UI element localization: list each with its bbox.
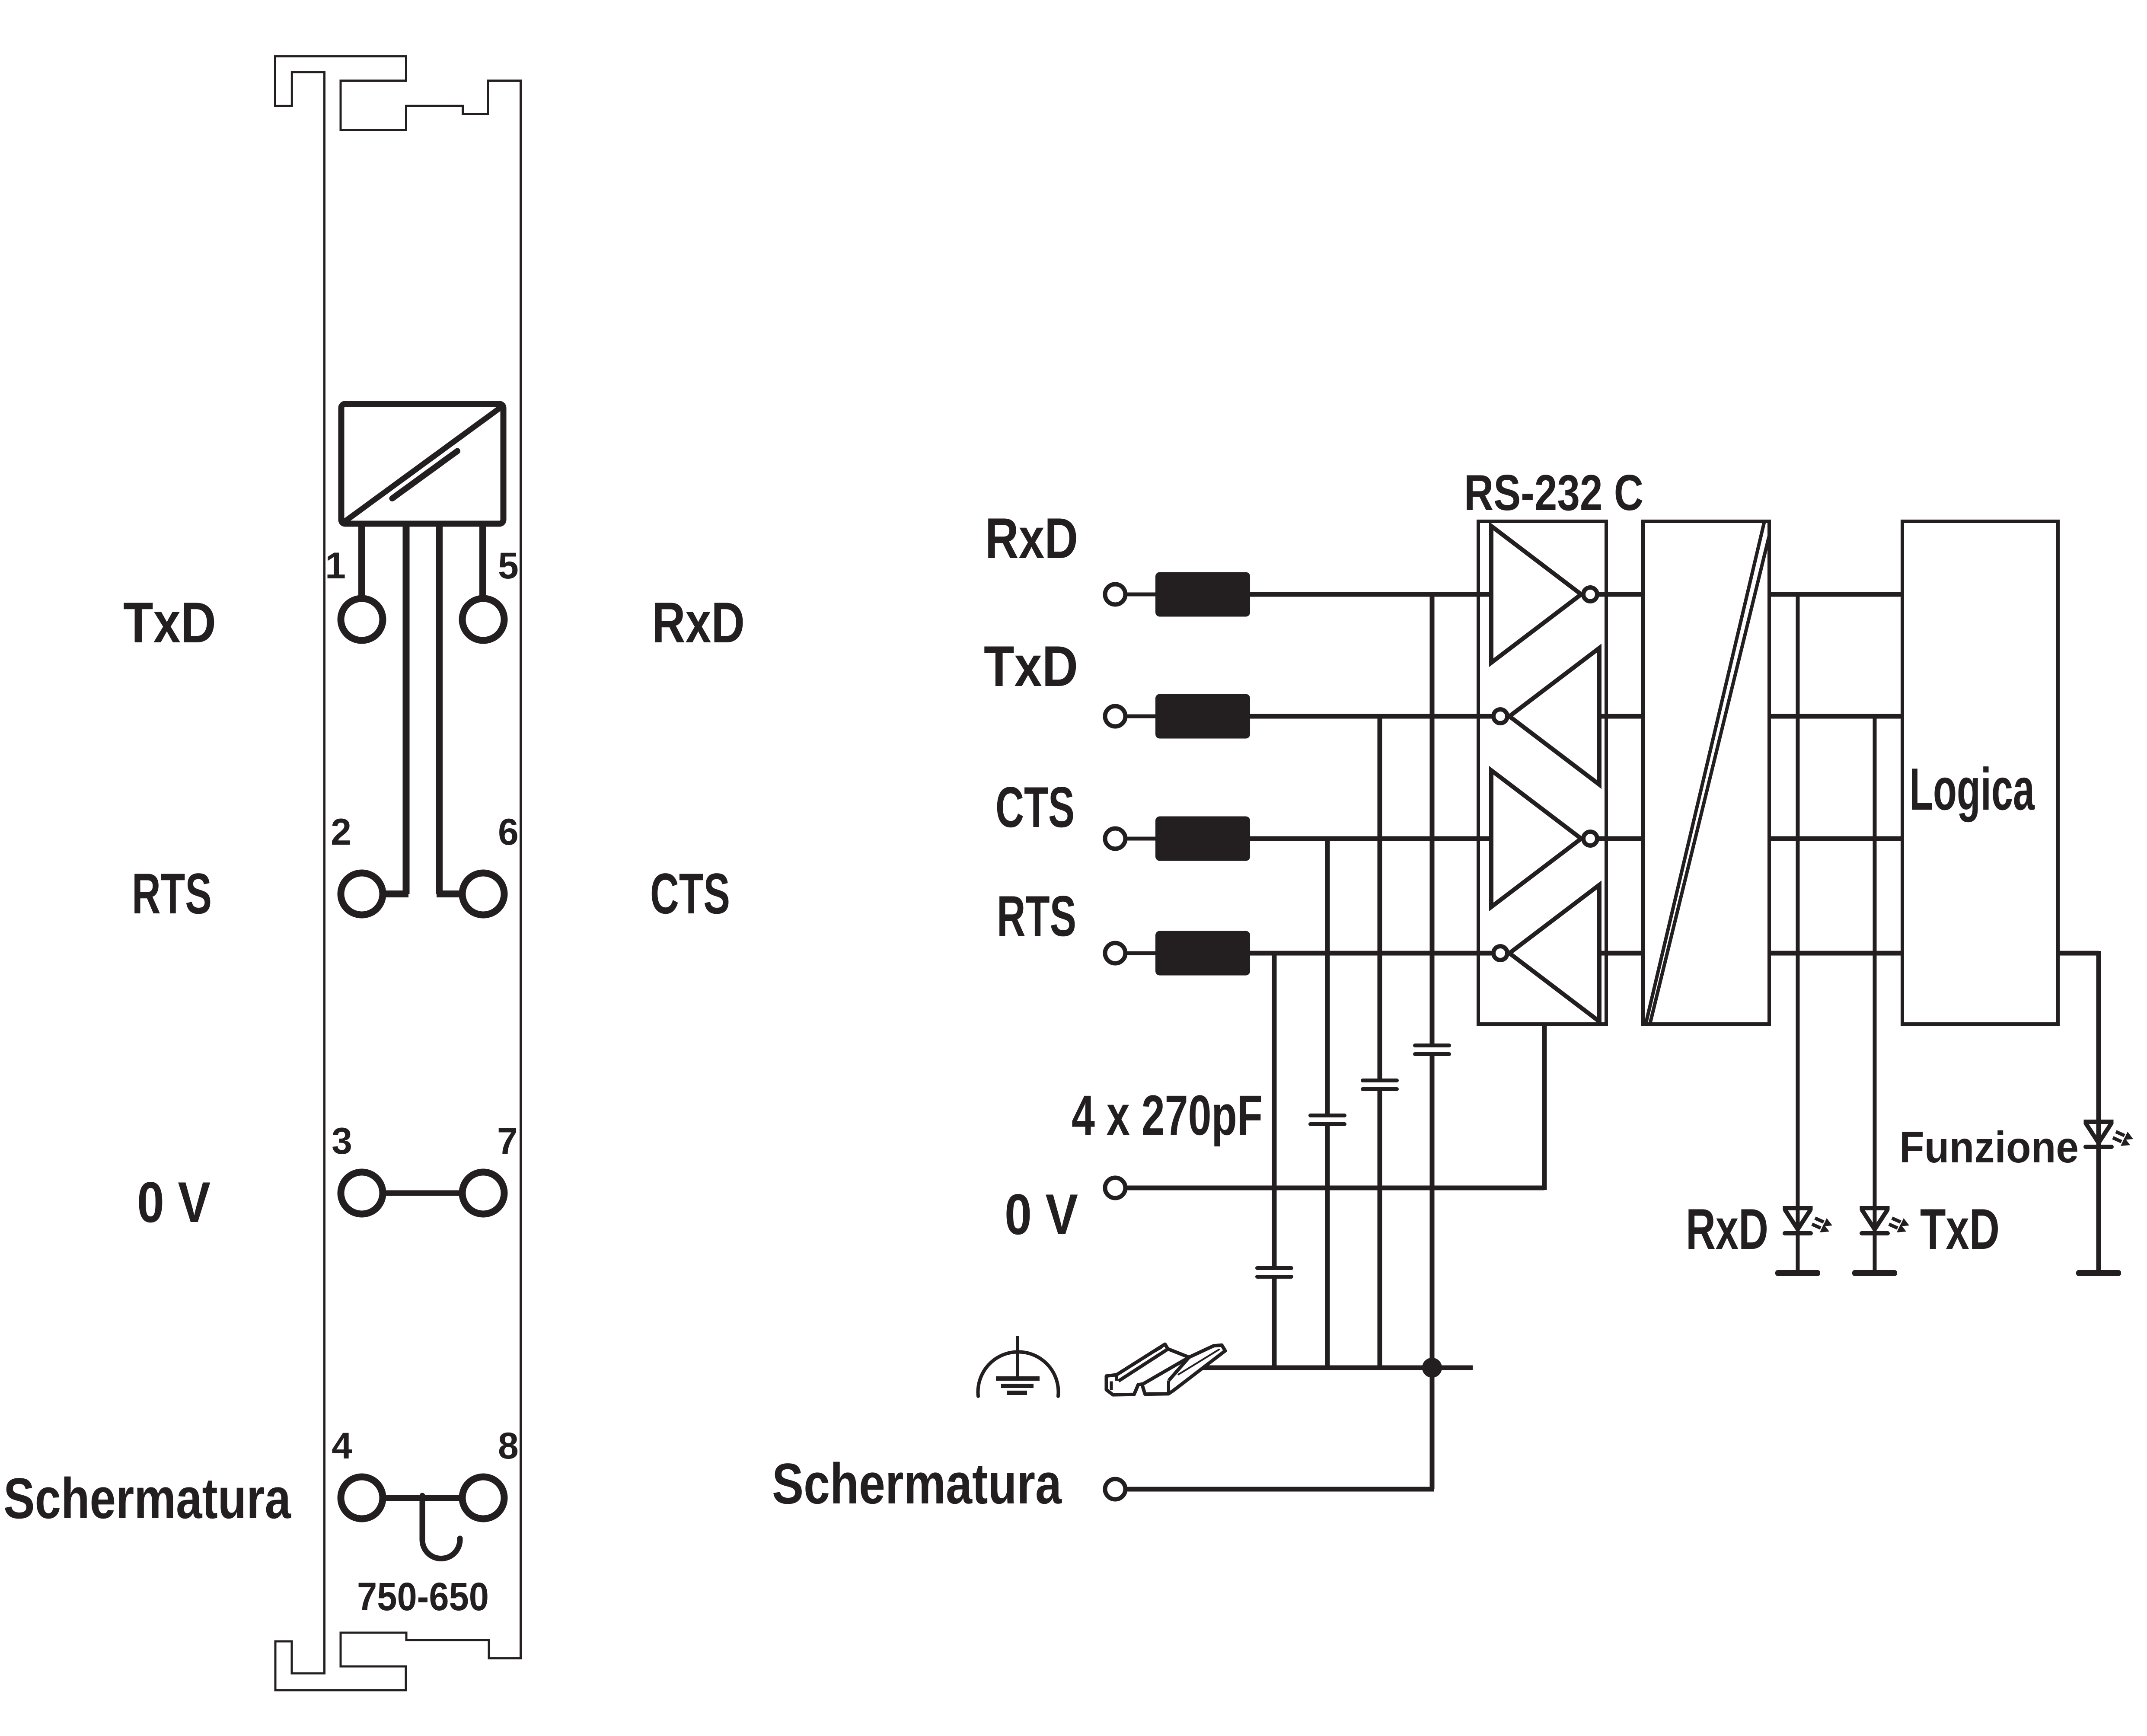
wire TxD isolation to logic bbox=[1771, 714, 1902, 719]
svg-text:TxD: TxD bbox=[1920, 1197, 2000, 1261]
isolation box U1 inside module bbox=[341, 404, 504, 524]
wire CTS buffer to isolation bbox=[1598, 836, 1643, 841]
wire CTS circle to resistor bbox=[1126, 837, 1158, 841]
capacitor C1 lower wire bbox=[1430, 1056, 1435, 1368]
wire CTS row resistor to buffer bbox=[1250, 836, 1492, 841]
wire Schermatura row bbox=[1126, 1487, 1434, 1492]
svg-text:4 x 270pF: 4 x 270pF bbox=[1072, 1083, 1263, 1147]
isolation block U3 bbox=[1643, 521, 1769, 1024]
wire RxD row resistor to buffer bbox=[1250, 592, 1492, 597]
svg-text:6: 6 bbox=[498, 811, 519, 853]
svg-text:Schermatura: Schermatura bbox=[3, 1467, 291, 1531]
svg-text:TxD: TxD bbox=[123, 591, 216, 655]
buffer U2B (TxD, left-pointing) bbox=[1509, 648, 1599, 785]
terminal 1 bbox=[341, 599, 383, 641]
buffer U2A (RxD, right-pointing) bbox=[1491, 526, 1581, 663]
DIN rail icon bbox=[1107, 1344, 1225, 1395]
capacitor tap wire CTS (upper) bbox=[1325, 839, 1330, 1114]
resistor R1 (RxD) bbox=[1155, 572, 1250, 617]
capacitor C4 plates bbox=[1255, 1266, 1293, 1270]
LED D2 TxD cathode bar bbox=[1860, 1231, 1890, 1235]
bubble U2C bbox=[1583, 832, 1597, 846]
wire RTS buffer to isolation bbox=[1599, 951, 1643, 956]
LED D1 RxD triangle sides bbox=[1785, 1209, 1811, 1229]
input terminal circle RxD bbox=[1105, 584, 1126, 605]
wire pin6 from isolation box to terminal 6 bbox=[436, 521, 443, 894]
input terminal circle RTS bbox=[1105, 943, 1126, 964]
RS-232 C block bbox=[1478, 521, 1606, 1024]
bubble U2B bbox=[1493, 709, 1507, 723]
LED D2 TxD triangle top edge bbox=[1860, 1206, 1890, 1210]
wire RxD buffer to isolation bbox=[1598, 592, 1643, 597]
svg-text:RxD: RxD bbox=[985, 507, 1078, 571]
wire 0V row bbox=[1126, 1186, 1544, 1190]
LED D2 TxD triangle sides bbox=[1862, 1209, 1888, 1229]
terminal 6 bbox=[463, 873, 504, 915]
wire CTS isolation to logic bbox=[1771, 836, 1902, 841]
resistor R3 (CTS) bbox=[1155, 817, 1250, 861]
capacitor C3 lower wire bbox=[1325, 1126, 1330, 1368]
resistor R2 (TxD) bbox=[1155, 694, 1250, 739]
wire RTS circle to resistor bbox=[1126, 951, 1158, 955]
input terminal circle 0V bbox=[1105, 1178, 1126, 1198]
ground bar D1 RxD LED bbox=[1775, 1270, 1820, 1276]
wire 0V to RS-232 block bbox=[1542, 1024, 1547, 1190]
svg-text:1: 1 bbox=[325, 545, 346, 587]
isolation box diagonal bbox=[343, 406, 503, 523]
svg-text:TxD: TxD bbox=[984, 635, 1078, 699]
wire RTS row resistor to buffer bubble bbox=[1250, 951, 1493, 956]
capacitor C1 plates bbox=[1413, 1044, 1451, 1047]
wire RTS isolation to logic bbox=[1771, 951, 1902, 956]
wire stub terminal6 bbox=[437, 890, 463, 897]
capacitor C2 plates bbox=[1361, 1079, 1399, 1082]
svg-text:4: 4 bbox=[332, 1425, 352, 1467]
ground bus bbox=[1197, 1366, 1473, 1370]
buffer U2D (RTS, left-pointing) bbox=[1509, 885, 1599, 1021]
capacitor tap wire RxD (upper) bbox=[1430, 594, 1435, 1044]
wire RxD circle to resistor bbox=[1126, 593, 1158, 597]
wire D3 Funzione LED drop bbox=[2096, 951, 2101, 1270]
input terminal circle TxD bbox=[1105, 706, 1126, 727]
svg-text:0 V: 0 V bbox=[1005, 1183, 1078, 1247]
isolation block diagonal 1 bbox=[1646, 523, 1764, 1023]
svg-text:5: 5 bbox=[498, 545, 519, 587]
terminal 3 bbox=[341, 1172, 383, 1214]
wire stub terminal2 bbox=[383, 890, 408, 897]
isolation block diagonal 2 bbox=[1650, 537, 1769, 1024]
capacitor tap wire TxD (upper) bbox=[1378, 716, 1382, 1079]
resistor R4 (RTS) bbox=[1155, 931, 1250, 976]
wire TxD buffer to isolation bbox=[1599, 714, 1643, 719]
module 750-650 body outline bbox=[275, 56, 521, 1690]
wire TxD row resistor to buffer bubble bbox=[1250, 714, 1493, 719]
terminal 2 bbox=[341, 873, 383, 915]
wire RxD isolation to logic bbox=[1771, 592, 1902, 597]
svg-text:Schermatura: Schermatura bbox=[772, 1452, 1062, 1516]
terminal 4 bbox=[341, 1477, 383, 1519]
svg-text:RS-232 C: RS-232 C bbox=[1464, 464, 1643, 521]
svg-text:Logica: Logica bbox=[1909, 756, 2035, 823]
svg-text:8: 8 bbox=[498, 1425, 519, 1467]
wire logic to Funzione LED (horizontal) bbox=[2058, 951, 2099, 956]
bubble U2D bbox=[1493, 946, 1507, 960]
wire link terminals 4-8 bbox=[385, 1495, 460, 1501]
svg-text:7: 7 bbox=[497, 1120, 518, 1162]
svg-text:RxD: RxD bbox=[652, 591, 745, 655]
svg-text:RTS: RTS bbox=[132, 862, 212, 926]
LED D1 RxD cathode bar bbox=[1783, 1231, 1813, 1235]
capacitor C4 lower wire bbox=[1272, 1279, 1277, 1368]
svg-text:3: 3 bbox=[332, 1120, 352, 1162]
svg-text:RTS: RTS bbox=[997, 884, 1076, 948]
svg-text:RxD: RxD bbox=[1686, 1197, 1768, 1261]
capacitor C2 lower wire bbox=[1378, 1091, 1382, 1368]
buffer U2C (CTS, right-pointing) bbox=[1491, 770, 1581, 907]
terminal 5 bbox=[463, 599, 504, 641]
wire TxD circle to resistor bbox=[1126, 715, 1158, 718]
capacitor C3 plates bbox=[1308, 1114, 1346, 1117]
wire pin5 from isolation box bbox=[479, 521, 486, 597]
ground bar D2 TxD LED bbox=[1852, 1270, 1897, 1276]
LED D3 Funzione arrows bbox=[2113, 1132, 2133, 1146]
isolation box parallel line bbox=[392, 451, 458, 499]
input terminal circle Schermatura bbox=[1105, 1479, 1126, 1500]
junction dot bbox=[1422, 1358, 1442, 1378]
svg-text:2: 2 bbox=[331, 811, 351, 853]
terminal 8 bbox=[463, 1477, 504, 1519]
shield hook on terminal 4-8 link bbox=[422, 1496, 460, 1559]
wire Schermatura vertical bbox=[1430, 1368, 1435, 1489]
bubble U2A bbox=[1583, 587, 1597, 601]
wire pin2 from isolation box to terminal 2 bbox=[403, 521, 410, 894]
terminal 7 bbox=[463, 1172, 504, 1214]
LED D3 Funzione triangle sides bbox=[2086, 1123, 2112, 1143]
svg-text:750-650: 750-650 bbox=[357, 1575, 489, 1619]
LED D3 Funzione triangle top edge bbox=[2084, 1120, 2114, 1124]
ground bar D3 Funzione LED bbox=[2076, 1270, 2121, 1276]
svg-text:CTS: CTS bbox=[650, 862, 730, 926]
logic block U4 bbox=[1902, 521, 2058, 1024]
svg-text:CTS: CTS bbox=[995, 775, 1075, 839]
wire link terminals 3-7 bbox=[385, 1190, 460, 1196]
input terminal circle CTS bbox=[1105, 829, 1126, 849]
wire pin1 from isolation box bbox=[358, 521, 365, 597]
svg-text:Funzione: Funzione bbox=[1899, 1123, 2079, 1172]
wire D2 TxD LED drop bbox=[1873, 716, 1877, 1270]
LED D1 RxD triangle top edge bbox=[1783, 1206, 1813, 1210]
svg-text:0 V: 0 V bbox=[137, 1171, 211, 1235]
wire D1 RxD LED drop bbox=[1796, 594, 1800, 1270]
LED D2 TxD arrows bbox=[1889, 1218, 1909, 1232]
capacitor tap wire RTS (upper) bbox=[1272, 953, 1277, 1266]
LED D1 RxD arrows bbox=[1812, 1218, 1832, 1232]
earth ground symbol bbox=[978, 1336, 1059, 1396]
LED D3 Funzione cathode bar bbox=[2083, 1145, 2114, 1149]
